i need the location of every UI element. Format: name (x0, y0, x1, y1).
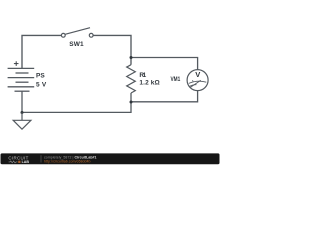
wire battery + terminal up and over to switch left (22, 35, 61, 68)
voltmeter VM1 meter scale arc (189, 81, 207, 83)
wire node A to voltmeter top (131, 58, 198, 70)
battery PS plates (8, 68, 35, 91)
svg-text:1.2 kΩ: 1.2 kΩ (139, 79, 159, 86)
svg-text:R1: R1 (139, 72, 146, 79)
wire resistor bottom down through node B (22, 93, 131, 112)
svg-text:5 V: 5 V (36, 81, 47, 88)
svg-text:http://circuitlab.com/c68dd4b: http://circuitlab.com/c68dd4b (44, 160, 91, 164)
watermark logo orange square (18, 161, 20, 163)
node B junction dot (130, 101, 133, 104)
svg-text:PS: PS (36, 73, 45, 80)
voltmeter VM1 lower arc (189, 85, 196, 87)
node C junction dot at battery negative (21, 111, 24, 114)
node A junction dot (130, 56, 133, 59)
svg-text:VM1: VM1 (171, 76, 181, 83)
switch SW1 (61, 28, 93, 37)
CircuitLab watermark bar (1, 153, 220, 164)
voltmeter VM1 circle (187, 70, 208, 91)
wire battery negative stub (21, 91, 23, 112)
resistor R1 zigzag (127, 65, 136, 93)
wire switch right to top of resistor branch (93, 35, 131, 64)
wire node B to voltmeter bottom (131, 91, 198, 102)
svg-text:LAB: LAB (22, 160, 30, 164)
battery PS plus sign (14, 61, 19, 66)
watermark logo zigzag (9, 161, 18, 163)
svg-text:SW1: SW1 (69, 41, 84, 48)
ground (13, 113, 31, 130)
voltmeter VM1 ticks (192, 80, 195, 82)
watermark divider (40, 155, 42, 162)
voltmeter VM1 needle (190, 80, 201, 87)
